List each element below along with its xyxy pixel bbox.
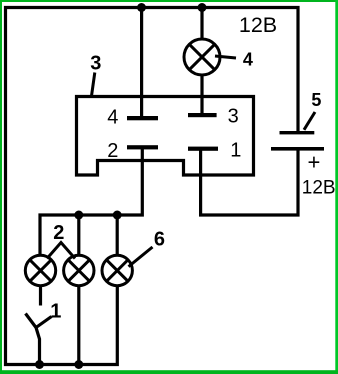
svg-text:4: 4 xyxy=(107,107,118,129)
svg-text:2: 2 xyxy=(53,222,64,244)
svg-text:12В: 12В xyxy=(302,177,336,198)
svg-text:3: 3 xyxy=(228,106,239,128)
svg-text:6: 6 xyxy=(154,228,165,250)
svg-text:2: 2 xyxy=(107,140,118,162)
svg-text:1: 1 xyxy=(50,301,61,323)
svg-text:5: 5 xyxy=(311,90,321,110)
svg-text:4: 4 xyxy=(243,49,253,69)
svg-text:3: 3 xyxy=(90,53,101,75)
svg-text:+: + xyxy=(308,149,321,174)
svg-text:1: 1 xyxy=(230,140,241,162)
svg-text:12В: 12В xyxy=(239,13,277,37)
